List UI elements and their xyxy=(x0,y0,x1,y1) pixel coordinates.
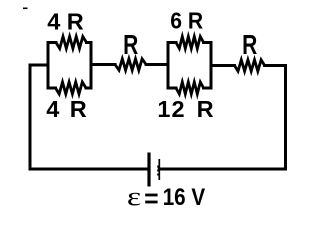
svg-text:R: R xyxy=(242,30,257,61)
svg-text:6 R: 6 R xyxy=(170,7,203,33)
svg-text:4 R: 4 R xyxy=(46,96,87,122)
svg-text:12 R: 12 R xyxy=(157,96,214,122)
svg-text:R: R xyxy=(123,30,138,61)
svg-text:ε: ε xyxy=(127,182,141,211)
svg-text:4 R: 4 R xyxy=(47,8,84,34)
svg-text:16 V: 16 V xyxy=(163,184,206,211)
